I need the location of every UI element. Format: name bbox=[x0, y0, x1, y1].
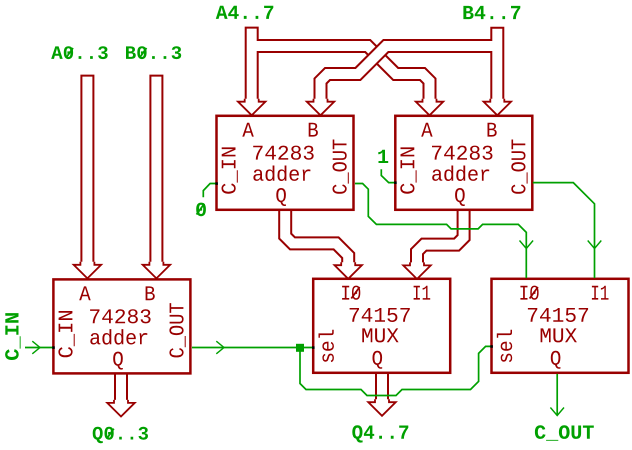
junction node sel bbox=[296, 344, 304, 352]
bus arrowhead into adder U3 pin A bbox=[416, 99, 444, 116]
bus adder U2 Q to mux U4 I0 (outline) bbox=[285, 211, 348, 268]
bus arrowhead bus Q4..7 tip bbox=[368, 399, 396, 416]
wire arrow on C_OUT wire bbox=[550, 408, 564, 416]
pin contact dot U5 sel bbox=[490, 345, 493, 348]
constant 1 label bbox=[378, 150, 388, 163]
wire logic 0 into adder U2 C_IN bbox=[203, 184, 217, 198]
adder U2 pin label C_OUT bbox=[333, 140, 349, 194]
adder U1 part number 74283 bbox=[90, 309, 151, 323]
bus arrowhead into adder U1 pin A bbox=[74, 262, 102, 279]
bus Q0..3 out of adder U1 (outline) bbox=[114, 375, 128, 405]
bus arrowhead into adder U2 pin B bbox=[307, 99, 335, 116]
mux U5 74157 body bbox=[492, 279, 629, 373]
bus B4..7 vertical (interior) bbox=[492, 29, 502, 104]
wire adder U2 C_OUT to mux U5 I0 bbox=[355, 184, 526, 279]
adder U1 label adder bbox=[90, 329, 147, 345]
wire arrow on U1 C_OUT wire bbox=[216, 341, 224, 354]
mux U5 part number 74157 bbox=[528, 308, 588, 322]
bus adder U3 Q to mux U4 I1 (interior) bbox=[417, 211, 464, 268]
adder U3 pin label C_IN bbox=[400, 147, 416, 193]
wire arrow into U5 I0 bbox=[520, 241, 534, 249]
bus B4..7 branch to U2.B (outline) bbox=[321, 46, 498, 104]
constant 0 label bbox=[196, 203, 206, 217]
adder U1 pin label C_OUT bbox=[169, 303, 185, 357]
bus arrowhead into mux U4 pin I0 bbox=[334, 262, 362, 279]
bus arrowhead into mux U4 pin I1 bbox=[403, 262, 431, 279]
mux U4 pin label Q bbox=[373, 351, 383, 369]
wire C_IN into adder U1 bbox=[25, 347, 53, 349]
adder U3 pin label C_OUT bbox=[511, 140, 527, 194]
slashed zero of A0..3 bbox=[66, 48, 73, 58]
adder U3 part number 74283 bbox=[432, 146, 493, 160]
bus A4..7 branch to U3.A (interior) bbox=[252, 46, 430, 104]
bus arrowhead into adder U1 pin B bbox=[143, 262, 171, 279]
adder U2 pin label A bbox=[242, 123, 254, 137]
adder U2 74283 body bbox=[217, 116, 354, 210]
bus B0..3 (outline) bbox=[149, 75, 163, 267]
bus B4..7 branch to U2.B (interior) bbox=[321, 46, 498, 104]
adder U3 label adder bbox=[432, 166, 489, 182]
pin contact dot U1 C_IN bbox=[52, 346, 55, 349]
adder U1 pin label B bbox=[146, 286, 155, 300]
net label B4..7 bbox=[463, 6, 520, 19]
adder U2 pin label B bbox=[309, 123, 318, 137]
adder U1 74283 body bbox=[53, 279, 190, 373]
bus B4..7 vertical (outline) bbox=[490, 27, 504, 104]
net label C_OUT bottom bbox=[535, 425, 594, 441]
mux U4 74157 body bbox=[313, 279, 450, 373]
mux U4 pin label sel bbox=[319, 330, 334, 362]
adder U3 74283 body bbox=[395, 116, 532, 210]
mux U5 pin label I1 bbox=[592, 286, 609, 300]
bus adder U2 Q to mux U4 I0 (interior) bbox=[285, 211, 348, 268]
pin contact dot U3 C_IN bbox=[394, 181, 397, 184]
mux U5 pin label sel bbox=[497, 330, 512, 362]
bus Q4..7 out of mux U4 (outline) bbox=[375, 374, 389, 404]
wire arrow into U5 I1 bbox=[588, 241, 602, 249]
mux U4 label MUX bbox=[362, 328, 398, 342]
adder U3 pin label Q bbox=[455, 188, 465, 206]
adder U2 pin label Q bbox=[276, 188, 286, 206]
slashed zero of U4 I0 bbox=[351, 287, 359, 299]
bus arrowhead into adder U3 pin B bbox=[484, 99, 512, 116]
slashed zero of 0 label bbox=[197, 204, 205, 215]
wire logic 1 into adder U3 C_IN bbox=[381, 169, 396, 182]
adder U2 label adder bbox=[253, 166, 310, 182]
net label A0..3 bbox=[51, 46, 107, 59]
bus B0..3 (interior) bbox=[151, 77, 161, 267]
adder U1 pin label A bbox=[79, 286, 91, 300]
adder U1 pin label C_IN bbox=[58, 311, 74, 357]
bus adder U3 Q to mux U4 I1 (outline) bbox=[417, 211, 464, 268]
wire adder U3 C_OUT to mux U5 I1 bbox=[533, 183, 595, 278]
pin contact dot U4 sel bbox=[312, 346, 315, 349]
slashed zero of Q0..3 bbox=[107, 429, 114, 439]
wire arrow on C_IN wire bbox=[32, 341, 40, 354]
mux U4 part number 74157 bbox=[350, 308, 410, 322]
bus Q4..7 out of mux U4 (interior) bbox=[377, 374, 387, 404]
bus A0..3 (interior) bbox=[82, 77, 92, 267]
net label C_IN left bbox=[5, 313, 21, 360]
mux U5 pin label Q bbox=[551, 351, 561, 369]
mux U5 label MUX bbox=[541, 328, 577, 342]
mux U4 pin label I0 bbox=[342, 286, 360, 300]
bus arrowhead into adder U2 pin A bbox=[238, 99, 266, 116]
net label Q4..7 bbox=[352, 425, 408, 442]
wire sel junction to mux U5 sel bbox=[300, 346, 492, 395]
net label Q0..3 bbox=[93, 427, 148, 443]
bus A4..7 vertical (outline) bbox=[245, 27, 259, 104]
mux U4 pin label I1 bbox=[414, 286, 431, 300]
pin contact dot U2 C_IN bbox=[215, 182, 218, 185]
adder U2 pin label C_IN bbox=[222, 147, 238, 193]
bus A4..7 branch to U3.A (outline) bbox=[252, 46, 430, 104]
wire adder U1 C_OUT to mux U4 sel bbox=[192, 347, 314, 349]
bus A4..7 vertical (interior) bbox=[247, 29, 257, 104]
net label B0..3 bbox=[126, 46, 181, 59]
mux U5 pin label I0 bbox=[520, 286, 538, 300]
wire mux U5 Q to C_OUT bbox=[556, 374, 558, 416]
bus Q0..3 out of adder U1 (interior) bbox=[116, 375, 126, 405]
adder U3 pin label B bbox=[488, 123, 497, 137]
bus A0..3 (outline) bbox=[80, 75, 94, 267]
slashed zero of U5 I0 bbox=[530, 287, 538, 299]
adder U2 part number 74283 bbox=[253, 146, 314, 160]
slashed zero of B0..3 bbox=[140, 48, 147, 58]
net label A4..7 bbox=[216, 6, 273, 19]
adder U1 pin label Q bbox=[113, 352, 123, 370]
bus arrowhead bus Q0..3 tip bbox=[107, 400, 135, 417]
adder U3 pin label A bbox=[421, 123, 432, 137]
